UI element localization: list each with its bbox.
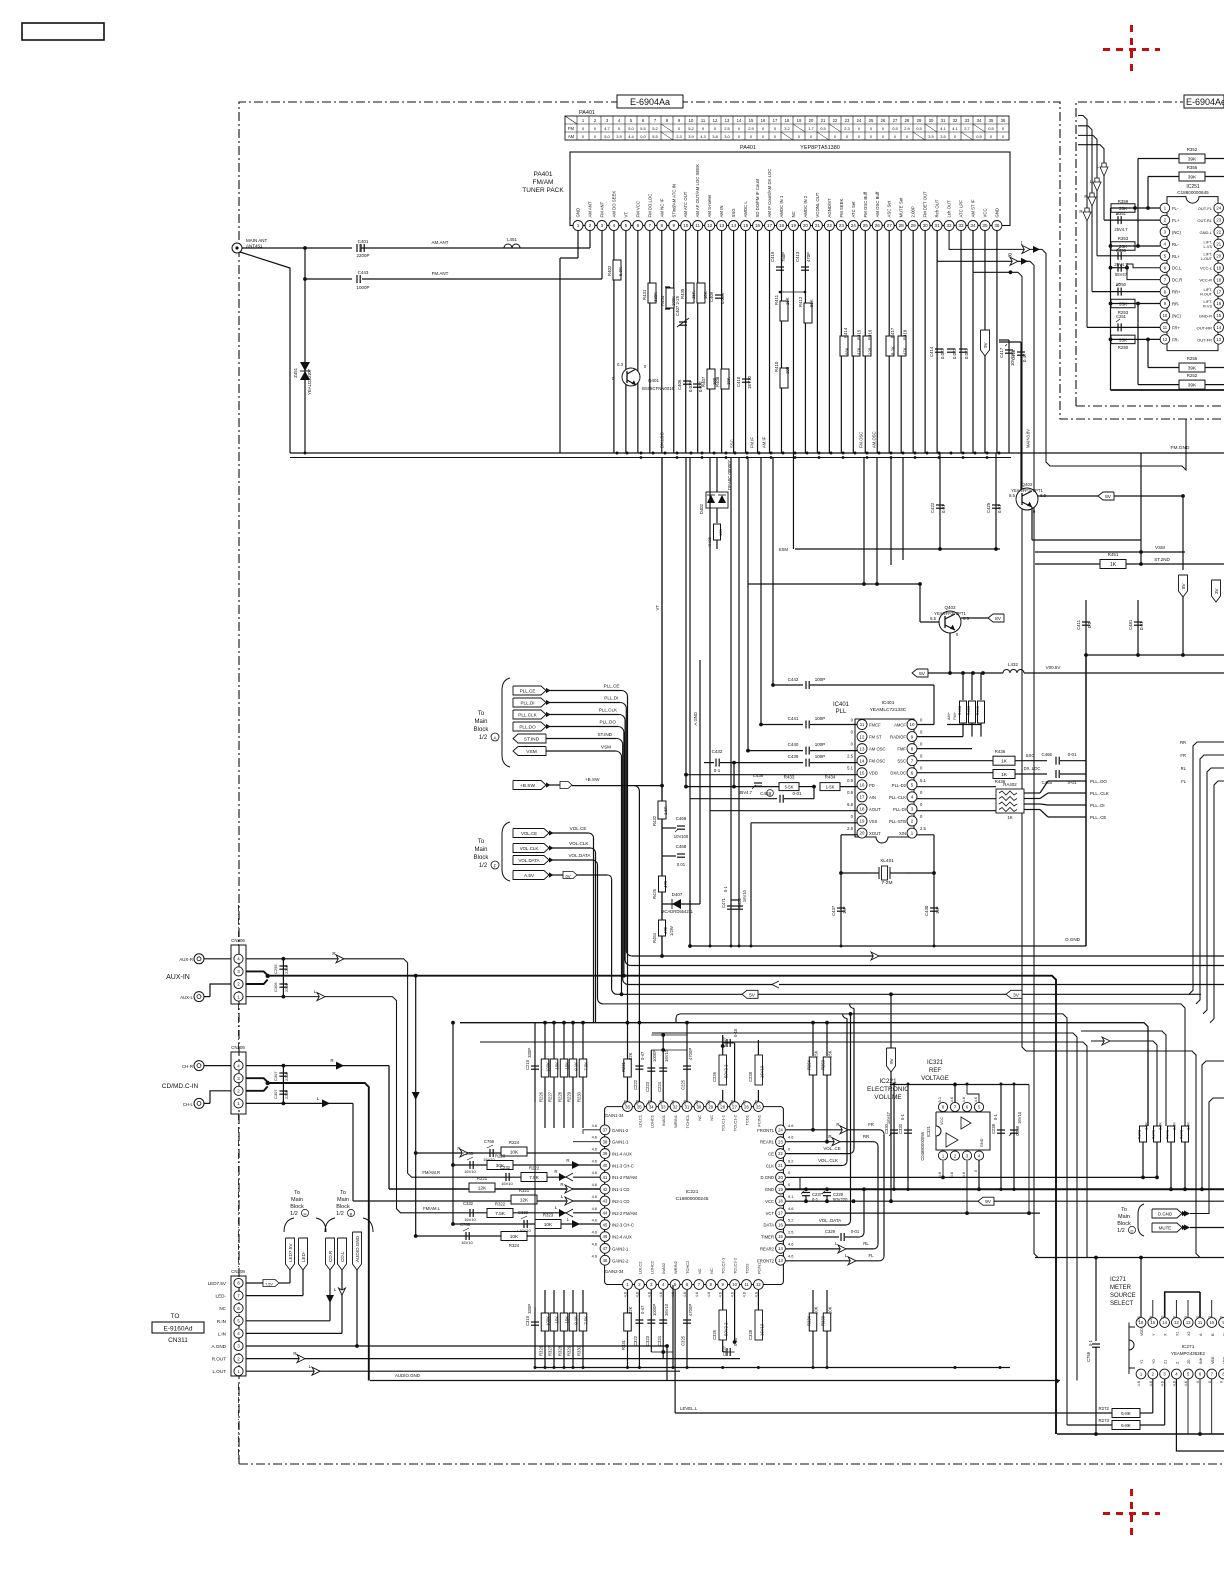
svg-text:MUTE: MUTE (1159, 1226, 1172, 1231)
svg-text:4.6: 4.6 (742, 1292, 747, 1297)
svg-text:0.022: 0.022 (940, 348, 945, 359)
svg-text:C411: C411 (1076, 619, 1081, 630)
wire AIN pin17 (690, 798, 734, 800)
wire +B.SW drop via C222 column (634, 786, 639, 792)
svg-text:0-01: 0-01 (792, 791, 802, 796)
svg-text:24: 24 (778, 1128, 783, 1133)
svg-text:FM SEEK: FM SEEK (839, 199, 844, 218)
svg-text:FM.IF: FM.IF (750, 437, 755, 448)
svg-text:C295: C295 (273, 964, 278, 974)
wire PLL tag bundle verticals (627, 697, 629, 1023)
svg-text:VOLTAGE: VOLTAGE (921, 1076, 948, 1082)
svg-text:16V10: 16V10 (760, 1323, 765, 1336)
svg-text:0: 0 (920, 730, 923, 735)
svg-text:0: 0 (990, 134, 993, 139)
capacitor C413 470P (801, 266, 809, 268)
connector CN305 CD/MD.C-IN (231, 1052, 246, 1114)
svg-text:AMCF: AMCF (894, 723, 906, 728)
wire CN308 pin7 LED- (246, 1295, 303, 1297)
svg-text:Z1: Z1 (1164, 1360, 1168, 1364)
svg-text:15K: 15K (828, 1050, 833, 1058)
IC221 pin 2 LDLC2 (635, 1280, 645, 1290)
tuner pack pin 27 ASC Set (884, 221, 894, 231)
svg-text:VT: VT (655, 605, 660, 611)
wire 8V branch right (1182, 496, 1184, 570)
resistor R253 col (826, 1023, 828, 1056)
IC221 pin 6 TCHC2 (682, 1280, 692, 1290)
svg-text:4.6: 4.6 (658, 1100, 663, 1105)
tuner pack pin 24 ATC Set (848, 221, 858, 231)
svg-text:4: 4 (618, 118, 621, 123)
svg-text:FM.OSC: FM.OSC (859, 432, 864, 448)
svg-text:16: 16 (761, 118, 766, 123)
capacitor C759 0-1 (1095, 1258, 1097, 1342)
svg-text:4.6: 4.6 (753, 1292, 758, 1297)
IC321 pin 5 (974, 1102, 983, 1111)
svg-text:33: 33 (965, 118, 970, 123)
svg-text:C324: C324 (657, 1335, 662, 1346)
wire drops from tuner pins (613, 231, 615, 453)
svg-text:0: 0 (1219, 1380, 1224, 1383)
svg-text:C355: C355 (1116, 248, 1127, 253)
resistor R329 col bottom (572, 1290, 574, 1368)
svg-text:4.1: 4.1 (952, 126, 958, 131)
svg-text:C315: C315 (525, 1315, 530, 1326)
svg-text:F: F (494, 864, 497, 869)
IC401 pin 9 RADIOF (907, 732, 917, 742)
svg-text:4.6: 4.6 (718, 1100, 723, 1105)
svg-text:14: 14 (860, 758, 865, 763)
IC401 pin 2 PLL-STB (907, 816, 917, 826)
resistor R334 col bottom (812, 1290, 814, 1313)
svg-text:C437: C437 (831, 905, 836, 916)
svg-text:R.OUT: R.OUT (212, 1357, 226, 1362)
bracket To Main Block 1/2 F (502, 822, 510, 881)
svg-text:9.1K: 9.1K (574, 1062, 579, 1071)
svg-text:220P: 220P (284, 1089, 289, 1099)
wire bundle y1051 right (1026, 1051, 1200, 1258)
svg-text:20: 20 (1216, 253, 1221, 258)
arrow right mid 1041 (1102, 1037, 1110, 1045)
wire input row IN2-2 FM/AM L (559, 1209, 566, 1217)
svg-text:VSM: VSM (526, 749, 536, 755)
svg-text:PLL-CLK: PLL-CLK (889, 795, 906, 800)
svg-text:18: 18 (860, 807, 865, 812)
bracket To Main Block 1/2 D (1138, 1204, 1144, 1236)
svg-text:CD.L: CD.L (340, 1251, 345, 1262)
svg-text:X: X (1164, 1333, 1168, 1336)
IC221 pin 48 GAIN2-2 (600, 1255, 610, 1265)
resistor R407 100 (707, 369, 715, 389)
wire input row IN1-1 CD bold (389, 1188, 601, 1190)
svg-text:INA02: INA02 (661, 1262, 666, 1274)
svg-text:B: B (350, 1211, 353, 1216)
svg-text:FR: FR (1180, 753, 1186, 758)
svg-text:0: 0 (920, 718, 923, 723)
svg-text:C215: C215 (525, 1059, 530, 1070)
tuner pack pin 4 AM DO SEEK (609, 221, 619, 231)
svg-text:23: 23 (839, 223, 845, 228)
tuner pack pin 16 SD DO/FM IF Count (753, 221, 763, 231)
svg-text:C326: C326 (712, 1329, 717, 1340)
svg-text:FM/AM: FM/AM (533, 179, 554, 186)
bracket To Main Block 1/2 A (502, 678, 510, 767)
capacitor C323 1000P bottom (650, 1290, 652, 1352)
svg-text:34: 34 (977, 118, 982, 123)
svg-text:Block: Block (1117, 1221, 1131, 1227)
svg-text:0: 0 (882, 126, 885, 131)
capacitor C320 0-1 (907, 1085, 909, 1190)
resistor R454 470 1/2W (659, 920, 666, 936)
wire IC271 top rail (1035, 1257, 1224, 1259)
svg-text:RR: RR (863, 1134, 869, 1139)
svg-text:WRIN1: WRIN1 (673, 1114, 678, 1128)
svg-text:10K: 10K (814, 1306, 819, 1314)
wire LEVEL.L from pin5 (674, 1290, 676, 1413)
svg-text:11: 11 (695, 223, 700, 228)
IC221 pin 32 WRIN1 (670, 1102, 680, 1112)
svg-text:21: 21 (778, 1163, 783, 1168)
tuner pack pin 19 NC (788, 221, 798, 231)
svg-text:C466: C466 (1042, 752, 1053, 757)
svg-text:TCD2: TCD2 (745, 1263, 750, 1274)
svg-text:R229: R229 (567, 1091, 572, 1102)
svg-text:3.3K: 3.3K (1172, 1122, 1177, 1130)
wire input row IN2-3 CH-C (453, 1223, 601, 1225)
svg-text:19: 19 (791, 223, 797, 228)
capacitor C419 750P (776, 266, 784, 268)
svg-text:LED-: LED- (216, 1294, 227, 1299)
svg-text:2200P: 2200P (356, 253, 369, 258)
svg-text:R: R (293, 1351, 296, 1356)
resistor R434b 1-5K (820, 783, 840, 791)
svg-text:R418: R418 (903, 329, 908, 340)
svg-text:C413: C413 (795, 251, 800, 262)
svg-text:3: 3 (601, 223, 604, 228)
svg-text:47: 47 (603, 1246, 608, 1251)
capacitor C226 50V2-2 (722, 1090, 724, 1102)
svg-text:RL: RL (1181, 766, 1187, 771)
tuner pack PA401 body (570, 152, 1010, 226)
svg-text:C251: C251 (1116, 314, 1127, 319)
svg-text:PA401: PA401 (579, 110, 595, 116)
wire GND pin19 rail bold (786, 1188, 1224, 1190)
resistor R435 15K (686, 283, 694, 303)
svg-text:DC.L: DC.L (1172, 266, 1182, 271)
wire bundle y956 (632, 955, 1224, 957)
svg-text:9.1: 9.1 (788, 1194, 793, 1199)
svg-text:C414: C414 (929, 346, 934, 357)
IC401 pin 6 DX/LOC (907, 768, 917, 778)
registration mark top-right (1103, 25, 1160, 76)
svg-text:R321: R321 (519, 1188, 530, 1193)
IC221 pin 21 CLK (776, 1160, 786, 1170)
resistor R072 3.3K (1182, 1126, 1189, 1142)
tag +B.SW (513, 781, 546, 790)
svg-text:10: 10 (689, 118, 694, 123)
wire columns below bus to PLL caps (685, 458, 687, 775)
svg-text:4.6: 4.6 (706, 1100, 711, 1105)
resistor R331 22K bottom (627, 1290, 629, 1368)
svg-text:CD/MD.C-IN: CD/MD.C-IN (162, 1083, 199, 1090)
svg-text:C440: C440 (788, 742, 799, 747)
svg-text:31: 31 (935, 223, 941, 228)
svg-text:5.5: 5.5 (652, 134, 658, 139)
svg-text:C239: C239 (991, 1123, 996, 1134)
svg-text:5V: 5V (749, 992, 756, 998)
wire AUX-R to corner (246, 959, 601, 1177)
svg-text:TCLC2-1: TCLC2-1 (721, 1257, 726, 1274)
svg-text:4.6: 4.6 (788, 1241, 793, 1246)
wire pin31 Rch OUT corner down (937, 231, 1038, 1258)
svg-text:R330: R330 (577, 1345, 582, 1356)
wire GND row extend (1110, 1188, 1202, 1190)
capacitor C432 0-1 (704, 762, 714, 764)
svg-text:3.3K: 3.3K (1186, 1122, 1191, 1130)
capacitor C227 0-15 (723, 1042, 735, 1044)
op-amp U321a (946, 1133, 958, 1147)
svg-text:A.5V: A.5V (524, 873, 535, 878)
svg-text:FL: FL (1181, 779, 1187, 784)
wire pin15 up (1152, 1300, 1154, 1317)
IC221 pin 9 TCLC2-1 (718, 1280, 728, 1290)
wire x1086 bold vertical (1085, 655, 1087, 946)
bracket To Main Block 1/2 H (284, 1218, 326, 1232)
svg-text:0.5: 0.5 (988, 126, 994, 131)
svg-text:0: 0 (870, 126, 873, 131)
wire CE out (786, 1153, 850, 1155)
svg-text:PLL..DO: PLL..DO (1090, 779, 1107, 784)
svg-text:0: 0 (788, 1182, 791, 1187)
wire IC321 cap bottoms (892, 1188, 895, 1191)
wires RA402 to PLL pins (917, 786, 996, 788)
svg-text:C443: C443 (358, 270, 369, 275)
IC401 pin 18 AOUT (857, 804, 867, 814)
svg-text:(NC): (NC) (1172, 230, 1181, 235)
svg-text:YEANFP1F3PT1: YEANFP1F3PT1 (1011, 488, 1043, 493)
svg-text:4.6: 4.6 (730, 1292, 735, 1297)
svg-text:C332: C332 (463, 1201, 474, 1206)
svg-text:PLL.CE: PLL.CE (604, 683, 620, 688)
capacitor C215 330P column (534, 1023, 536, 1102)
svg-text:26: 26 (881, 118, 886, 123)
svg-text:REAR2: REAR2 (760, 1246, 775, 1251)
svg-text:R223: R223 (495, 1154, 506, 1159)
svg-text:23: 23 (778, 1139, 783, 1144)
svg-text:4.4: 4.4 (628, 134, 634, 139)
svg-text:8.5: 8.5 (930, 616, 936, 621)
svg-text:PLL-STB: PLL-STB (889, 819, 906, 824)
tuner pack pin 14 SSG (729, 221, 739, 231)
capacitor C411 0.1 (1085, 600, 1087, 655)
svg-text:SSC: SSC (1025, 753, 1034, 758)
resistor R411 10K (780, 301, 788, 321)
svg-text:4.7: 4.7 (604, 126, 610, 131)
wire bundle y1014 (676, 1014, 1067, 1425)
svg-text:R: R (566, 1158, 569, 1163)
capacitor C307 220P x2 (282, 1066, 284, 1104)
svg-text:4.3: 4.3 (700, 134, 706, 139)
svg-text:Y: Y (1152, 1333, 1156, 1336)
wire D.GND row extend (800, 1176, 1157, 1178)
svg-text:RA402: RA402 (1003, 782, 1017, 787)
svg-text:1K: 1K (1007, 815, 1012, 820)
svg-text:0: 0 (894, 134, 897, 139)
IC221 pin 10 TCLC2-2 (730, 1280, 740, 1290)
svg-text:39K: 39K (1188, 157, 1197, 163)
capacitor C222 0.47 col (638, 1023, 640, 1102)
tag AUDIO.GND down (353, 1232, 362, 1270)
svg-text:5V: 5V (919, 671, 926, 677)
svg-text:100: 100 (785, 366, 790, 374)
svg-text:1/2: 1/2 (336, 1211, 344, 1217)
tuner pack pin 1 GND (573, 221, 583, 231)
wire AUDIO.GND rail (370, 1380, 1060, 1382)
tuner pack pin 36 GND (992, 221, 1002, 231)
wire D.GND pin20 (786, 1176, 800, 1178)
IC401 pin 3 PLL-DI (907, 804, 917, 814)
svg-text:C322: C322 (633, 1335, 638, 1346)
svg-text:FCIN2: FCIN2 (756, 1262, 761, 1274)
svg-text:Block: Block (474, 727, 490, 733)
svg-text:DX/LOC: DX/LOC (890, 771, 906, 776)
capacitor C355 25V4.7 (1097, 255, 1160, 257)
svg-text:VOL.DATA: VOL.DATA (568, 853, 591, 858)
svg-text:FM ST: FM ST (869, 735, 882, 740)
svg-text:4.6: 4.6 (592, 1253, 597, 1258)
svg-text:H: H (304, 1211, 307, 1216)
IC401 pin 16 PD (857, 780, 867, 790)
capacitor C415 0.022 (947, 348, 955, 350)
svg-text:6: 6 (637, 223, 640, 228)
svg-text:0: 0 (956, 632, 959, 637)
wire input row IN1-3 CH-C (453, 1164, 601, 1166)
svg-text:13: 13 (1174, 1320, 1179, 1325)
svg-text:AIN: AIN (869, 795, 876, 800)
resistor R071 3.3K (1168, 1126, 1175, 1142)
IC251 pin 3 (NC) (1160, 227, 1170, 237)
svg-text:10K: 10K (785, 297, 790, 305)
svg-text:AM: AM (568, 134, 575, 139)
board label E-6904Aa (617, 95, 683, 108)
svg-text:TCHC2: TCHC2 (685, 1260, 690, 1274)
IC401 pin 20 XOUT (857, 828, 867, 838)
svg-text:L: L (845, 1253, 848, 1258)
svg-text:0-47: 0-47 (640, 1305, 645, 1314)
svg-text:3.9: 3.9 (688, 134, 694, 139)
arrow L output double (1022, 245, 1030, 253)
svg-text:10: 10 (683, 223, 689, 228)
svg-text:FM VCC: FM VCC (635, 201, 640, 217)
svg-text:15: 15 (1216, 313, 1221, 318)
svg-text:OUT-FL: OUT-FL (1198, 206, 1213, 211)
svg-text:4.6: 4.6 (592, 1135, 597, 1140)
svg-text:AM ANT: AM ANT (587, 201, 592, 217)
svg-text:220P: 220P (284, 1071, 289, 1081)
svg-text:R230: R230 (577, 1091, 582, 1102)
svg-text:1000P: 1000P (652, 1050, 657, 1062)
IC251 pin 9 RR- (1160, 299, 1170, 309)
svg-text:0: 0 (594, 134, 597, 139)
capacitor C295 220P (282, 959, 284, 997)
svg-text:0.022: 0.022 (952, 348, 957, 359)
svg-text:12K: 12K (520, 1198, 529, 1204)
svg-text:5.2: 5.2 (788, 1218, 793, 1223)
resistor R451 1K (1035, 563, 1224, 565)
tuner pack pin 25 FM OSC Buff (860, 221, 870, 231)
svg-text:R222: R222 (529, 1166, 540, 1171)
svg-text:AMDC IN 1: AMDC IN 1 (779, 195, 784, 217)
svg-text:IC271: IC271 (1182, 1344, 1195, 1350)
svg-text:ST.IND: ST.IND (524, 737, 540, 743)
IC221 pin 18 VCC (776, 1196, 786, 1206)
svg-text:0: 0 (1002, 134, 1005, 139)
svg-text:7-2M: 7-2M (882, 880, 893, 886)
svg-text:VOL..CLK: VOL..CLK (818, 1158, 838, 1163)
svg-text:R.VS: R.VS (1203, 305, 1212, 309)
IC271 pin 5 (1183, 1369, 1193, 1379)
resistor R271 3.3K (1154, 1126, 1161, 1142)
IC221 pin 7 NC (694, 1280, 704, 1290)
svg-text:0: 0 (594, 126, 597, 131)
svg-text:39: 39 (603, 1151, 608, 1156)
svg-text:L: L (317, 1096, 320, 1101)
IC221 pin 8 NC (706, 1280, 716, 1290)
wire bundle y985 (628, 984, 1224, 986)
svg-text:IN1-4 AUX: IN1-4 AUX (612, 1152, 632, 1157)
svg-text:C333: C333 (518, 1210, 529, 1215)
IC221 pin 14 REAR2 (776, 1244, 786, 1254)
svg-text:FL+: FL+ (1172, 218, 1180, 223)
resistor R410 100 (780, 368, 788, 388)
svg-text:43: 43 (603, 1199, 608, 1204)
svg-text:C406: C406 (677, 379, 682, 390)
svg-text:0: 0 (858, 134, 861, 139)
svg-text:4.6: 4.6 (682, 1100, 687, 1105)
svg-text:ATC Set: ATC Set (851, 201, 856, 218)
svg-text:1/2W: 1/2W (669, 926, 674, 936)
wire pin19 to KSM line (792, 231, 794, 549)
IC251 pin 12 FR- (1160, 335, 1170, 345)
diode D407 MCADRD554211 (662, 903, 690, 905)
svg-text:VDD: VDD (1140, 1328, 1144, 1336)
svg-text:10V100: 10V100 (674, 834, 689, 839)
svg-text:0: 0 (788, 1147, 791, 1152)
svg-text:FM+: FM+ (952, 711, 957, 720)
svg-text:AM DO SEEK: AM DO SEEK (611, 191, 616, 218)
IC271 pin 12 (1183, 1318, 1193, 1328)
tag LED- down (299, 1238, 308, 1270)
svg-text:9: 9 (678, 118, 681, 123)
svg-text:CN311: CN311 (168, 1337, 188, 1344)
wire vertical x891 9V (890, 994, 892, 1048)
svg-text:IN2-3 CH-C: IN2-3 CH-C (612, 1223, 634, 1228)
arrow R aux (336, 955, 344, 963)
board label E-6904Ae (1184, 95, 1224, 108)
svg-text:FM ANT: FM ANT (599, 201, 604, 217)
wire AUX gnd trunk bold (246, 971, 268, 975)
svg-text:0-1: 0-1 (723, 885, 728, 892)
svg-text:NC: NC (697, 1115, 702, 1121)
resistor R417 8.2K (886, 336, 894, 356)
svg-text:0-1: 0-1 (993, 1113, 998, 1120)
IC271 pin 13 (1172, 1318, 1182, 1328)
svg-text:5-5K: 5-5K (785, 785, 794, 790)
svg-text:17: 17 (778, 1211, 783, 1216)
svg-text:0: 0 (678, 126, 681, 131)
svg-text:2.3: 2.3 (676, 134, 682, 139)
svg-text:4.6: 4.6 (634, 1292, 639, 1297)
